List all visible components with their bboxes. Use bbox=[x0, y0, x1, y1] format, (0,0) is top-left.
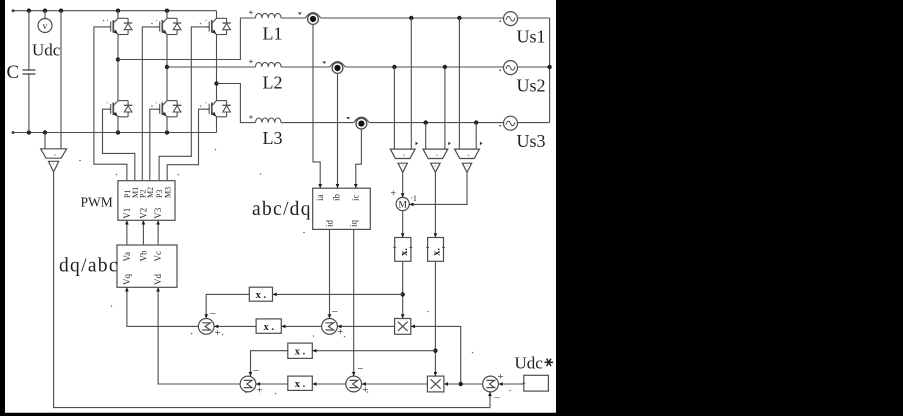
svg-text:Udc: Udc bbox=[32, 41, 61, 60]
wire: VT2 output to gain G2 bbox=[434, 172, 436, 237]
summing junction S2 bbox=[322, 319, 338, 335]
svg-text:+: + bbox=[256, 385, 262, 396]
wire: gate drive M1 (PWM pin2 to Q4 gate) bbox=[103, 109, 135, 181]
node: phase B midpoint bbox=[165, 65, 169, 69]
tiny specks (artifacts in source) bbox=[191, 333, 193, 335]
node: tap on S5 output bbox=[459, 382, 463, 386]
wire: gate drive P2 (PWM pin3 to Q2 gate) bbox=[142, 27, 159, 181]
wire: phase B output to L2 bbox=[167, 66, 256, 68]
capacitor C bbox=[28, 11, 30, 70]
wire: modulation signals dq/abc to PWM bbox=[126, 220, 128, 245]
inductor L2 bbox=[256, 62, 282, 67]
wire: leg B vertical segments bbox=[166, 11, 168, 19]
voltmeter V (Udc measurement) bbox=[44, 11, 46, 19]
svg-text:iq: iq bbox=[349, 219, 359, 227]
svg-text:x .: x . bbox=[295, 347, 306, 358]
PWM block bbox=[118, 181, 175, 221]
terminal mark + before L3 bbox=[249, 116, 253, 118]
wire: multiplier X2 output to S4 bbox=[362, 383, 428, 385]
gain block B1 bbox=[288, 343, 313, 358]
voltage sensor VT1 (trapezoid) bbox=[390, 149, 415, 158]
svg-text:x.: x. bbox=[432, 248, 443, 256]
svg-text:Us2: Us2 bbox=[517, 75, 546, 95]
wire: B2 output to S3 right bbox=[256, 383, 288, 385]
svg-text:dq/abc: dq/abc bbox=[59, 256, 119, 277]
inductor L1 bbox=[256, 13, 282, 18]
direction mark before CT2 bbox=[323, 62, 327, 65]
voltage sensor VT2 output buffer (triangle) bbox=[431, 163, 440, 172]
terminal mark + before L2 bbox=[249, 60, 253, 62]
transistor Q3 (upper IGBT with diode, leg C) bbox=[205, 18, 231, 34]
junction dot neutral at Us2 bbox=[547, 65, 551, 69]
wire: voltage sense drop from L1 to VT3 bbox=[458, 18, 460, 149]
direction mark right of VT2 bbox=[448, 142, 451, 146]
wire: gate drive P3 (PWM pin5 to Q3 gate) bbox=[159, 27, 209, 181]
wire: leg C vertical segments bbox=[216, 11, 218, 19]
svg-text:id: id bbox=[324, 219, 334, 227]
junction dots: voltage sense taps on phase lines bbox=[409, 16, 413, 20]
svg-text:Us1: Us1 bbox=[517, 26, 546, 46]
wire: A2 output to S1 right bbox=[214, 325, 256, 327]
wire: A1 output to sum S1 top bbox=[206, 294, 249, 318]
summing junction S5 (DC voltage loop) bbox=[483, 376, 499, 392]
inductor L3 bbox=[256, 118, 282, 123]
svg-text:+: + bbox=[337, 327, 343, 338]
wire: line segment L2 to current sensor CT2 bbox=[281, 66, 330, 68]
multiplier X1 bbox=[395, 319, 411, 335]
gain block B2 bbox=[288, 376, 313, 390]
node: phase A midpoint bbox=[116, 57, 120, 61]
svg-text:L3: L3 bbox=[263, 128, 283, 148]
direction mark right of VT3 bbox=[480, 142, 483, 146]
wire: Udc feedback down and along bottom to S5 bbox=[54, 172, 490, 408]
svg-text:V1: V1 bbox=[122, 208, 132, 219]
wire: X1 right input from DC loop bbox=[411, 326, 461, 384]
PLL block M bbox=[396, 197, 409, 210]
wire: multiplier X1 output to S2 bbox=[337, 325, 394, 327]
wire: B1 output to sum S3 top bbox=[251, 351, 288, 376]
summing junction S1 bbox=[198, 319, 214, 335]
svg-text:·1: ·1 bbox=[410, 193, 417, 203]
wire: ic measurement to abc/dq bbox=[356, 129, 362, 188]
gain block A2 bbox=[256, 319, 281, 333]
svg-text:v: v bbox=[43, 22, 48, 32]
direction mark right of VT1 bbox=[416, 142, 419, 146]
multiplier X2 bbox=[427, 376, 444, 392]
svg-text:C: C bbox=[7, 62, 20, 83]
wire: voltage sense drop from L2 to VT1 bbox=[393, 67, 395, 149]
bottom black strip bbox=[0, 413, 903, 416]
svg-text:ic: ic bbox=[351, 194, 361, 201]
wire: G2 output down to multiplier X2 bbox=[434, 261, 436, 376]
wire: voltage sense drop from L3 to VT3 bbox=[475, 123, 477, 150]
wire: iq from abc/dq into S4 top bbox=[353, 229, 355, 376]
current sensor CT2 bbox=[330, 62, 346, 68]
svg-text:x.: x. bbox=[399, 248, 410, 256]
svg-text:ib: ib bbox=[331, 193, 341, 201]
svg-text:Va: Va bbox=[122, 252, 132, 262]
wire: M output to gain G1 bbox=[402, 211, 404, 238]
wire: neutral bus vertical bbox=[549, 18, 551, 123]
svg-text:PWM: PWM bbox=[81, 195, 113, 210]
wire: leg A vertical segments bbox=[117, 11, 119, 19]
wire: line segment CT2 to source Us2 bbox=[345, 66, 503, 68]
svg-text:Vb: Vb bbox=[138, 250, 148, 261]
transistor Q2 (upper IGBT with diode, leg B) bbox=[156, 18, 182, 34]
node: tap to gain A1 bbox=[401, 292, 405, 296]
wire: line segment CT1 to source Us1 bbox=[321, 17, 504, 19]
svg-text:x .: x . bbox=[295, 379, 306, 390]
wire: phase A output to L1 bbox=[118, 18, 256, 60]
voltage sensor VT3 (trapezoid) bbox=[455, 149, 480, 158]
terminal mark + before L1 bbox=[249, 11, 253, 13]
wire: gate drive M2 (PWM pin4 to Q5 gate) bbox=[150, 109, 160, 181]
summing junction S3 bbox=[240, 376, 256, 392]
voltage sensor VT3 output buffer (triangle) bbox=[462, 163, 471, 172]
svg-text:+: + bbox=[215, 328, 221, 339]
AC source Us1 bbox=[504, 12, 518, 26]
wire: sum S2 output to A2 bbox=[281, 325, 321, 327]
svg-text:Udc: Udc bbox=[515, 354, 544, 373]
wire: tap to B1 input bbox=[312, 350, 435, 352]
svg-text:x .: x . bbox=[256, 290, 267, 301]
summing junction S4 bbox=[346, 376, 362, 392]
wire: ib measurement to abc/dq bbox=[337, 74, 339, 189]
wire: DC bus positive rail bbox=[13, 10, 217, 12]
svg-text:Us3: Us3 bbox=[517, 131, 546, 151]
wire: voltage sense drop from L1 to VT1 bbox=[410, 18, 412, 149]
wire: id from abc/dq into S2 top bbox=[329, 229, 331, 318]
transistor Q6 (lower IGBT with diode, leg C) bbox=[205, 101, 231, 117]
direction mark before CT1 bbox=[298, 13, 302, 16]
svg-text:ia: ia bbox=[315, 194, 325, 201]
wire: DC bus negative rail bbox=[13, 132, 217, 134]
svg-text:Vc: Vc bbox=[153, 251, 163, 262]
svg-text:M3: M3 bbox=[163, 187, 172, 198]
wire: sum S5 output to X2 with tap up to X1 bbox=[444, 383, 483, 385]
dq/abc block bbox=[117, 245, 177, 287]
wire: phase C output to L3 bbox=[217, 84, 256, 123]
direction mark before CT3 bbox=[346, 117, 350, 120]
svg-text:+: + bbox=[498, 372, 504, 383]
voltage sensor VT1 output buffer (triangle) bbox=[398, 163, 407, 172]
current sensor CT1 bbox=[305, 13, 321, 19]
wire: sum S4 output to B2 bbox=[312, 383, 346, 385]
node: tap to gain B1 bbox=[433, 349, 437, 353]
voltage sensor VT0 (Udc, trapezoid) bbox=[41, 149, 67, 158]
wire: line segment L1 to current sensor CT1 bbox=[281, 17, 305, 19]
wire: G1 output down to multiplier X1 bbox=[402, 261, 404, 318]
node: phase C midpoint bbox=[214, 81, 218, 85]
wire: VT3 output to PLL M right input bbox=[409, 172, 467, 204]
transistor Q4 (lower IGBT with diode, leg A) bbox=[107, 101, 133, 117]
wire: negative rail to Udc sensor VT0 bbox=[44, 133, 46, 149]
wire: Vd feedback from dq/abc to S3 bbox=[158, 287, 240, 384]
svg-text:M2: M2 bbox=[146, 187, 155, 198]
current sensor CT3 bbox=[354, 117, 370, 123]
wire: VT1 output to PLL M bbox=[402, 172, 404, 197]
wire: positive rail to Udc sensor VT0 bbox=[60, 11, 62, 149]
junction dots on positive rail bbox=[27, 9, 31, 13]
svg-text:+: + bbox=[390, 189, 396, 200]
wire: Vq feedback from dq/abc to S1 bbox=[127, 287, 198, 326]
wire: tap to A1 input bbox=[273, 293, 403, 295]
wire: gate drive P1 (PWM pin1 to Q1 gate) bbox=[94, 27, 127, 181]
right black margin area bbox=[556, 0, 903, 416]
transistor Q1 (upper IGBT with diode, leg A) bbox=[107, 18, 133, 34]
wire: ia measurement to abc/dq bbox=[313, 25, 320, 189]
svg-text:Vd: Vd bbox=[153, 274, 163, 285]
wire: gate drive M3 (PWM pin6 to Q6 gate) bbox=[167, 109, 209, 181]
gain block G1 (x) vertical bbox=[395, 238, 411, 262]
svg-text:−: − bbox=[210, 308, 216, 320]
wire: line segment L3 to current sensor CT3 bbox=[281, 122, 354, 124]
abc/dq block bbox=[313, 188, 371, 229]
svg-text:L2: L2 bbox=[263, 73, 283, 93]
arrows into abc/dq inputs bbox=[318, 184, 322, 188]
svg-text:V2: V2 bbox=[138, 208, 148, 219]
svg-text:−: − bbox=[332, 306, 338, 318]
wire: voltage sense drop from L2 to VT2 bbox=[444, 67, 446, 149]
VT0 output buffer triangle bbox=[48, 161, 58, 172]
wire: source neutral connections bbox=[518, 17, 550, 19]
svg-text:abc/dq: abc/dq bbox=[252, 199, 312, 220]
voltage sensor VT2 (trapezoid) bbox=[423, 149, 448, 158]
svg-text:V3: V3 bbox=[153, 207, 163, 218]
svg-text:L1: L1 bbox=[263, 24, 283, 44]
svg-text:x .: x . bbox=[263, 322, 274, 333]
transistor Q5 (lower IGBT with diode, leg B) bbox=[156, 101, 182, 117]
svg-text:−: − bbox=[494, 393, 500, 405]
AC source Us3 bbox=[504, 116, 518, 130]
wire: line segment CT3 to source Us3 bbox=[369, 122, 503, 124]
svg-text:M: M bbox=[398, 201, 407, 211]
svg-text:Vq: Vq bbox=[122, 274, 132, 285]
wire: Udc* reference into S5 bbox=[498, 383, 523, 385]
gain block G2 (x) vertical bbox=[428, 238, 444, 262]
reference block Udc* bbox=[524, 375, 549, 391]
svg-text:−: − bbox=[357, 363, 363, 375]
junction dots on negative rail bbox=[27, 130, 31, 134]
svg-text:+: + bbox=[362, 385, 368, 396]
wire: voltage sense drop from L3 to VT2 bbox=[425, 123, 427, 150]
gain block A1 bbox=[249, 287, 272, 301]
svg-text:−: − bbox=[253, 365, 259, 377]
AC source Us2 bbox=[504, 61, 518, 75]
white canvas bbox=[5, 0, 556, 413]
left black margin bar bbox=[0, 0, 5, 416]
